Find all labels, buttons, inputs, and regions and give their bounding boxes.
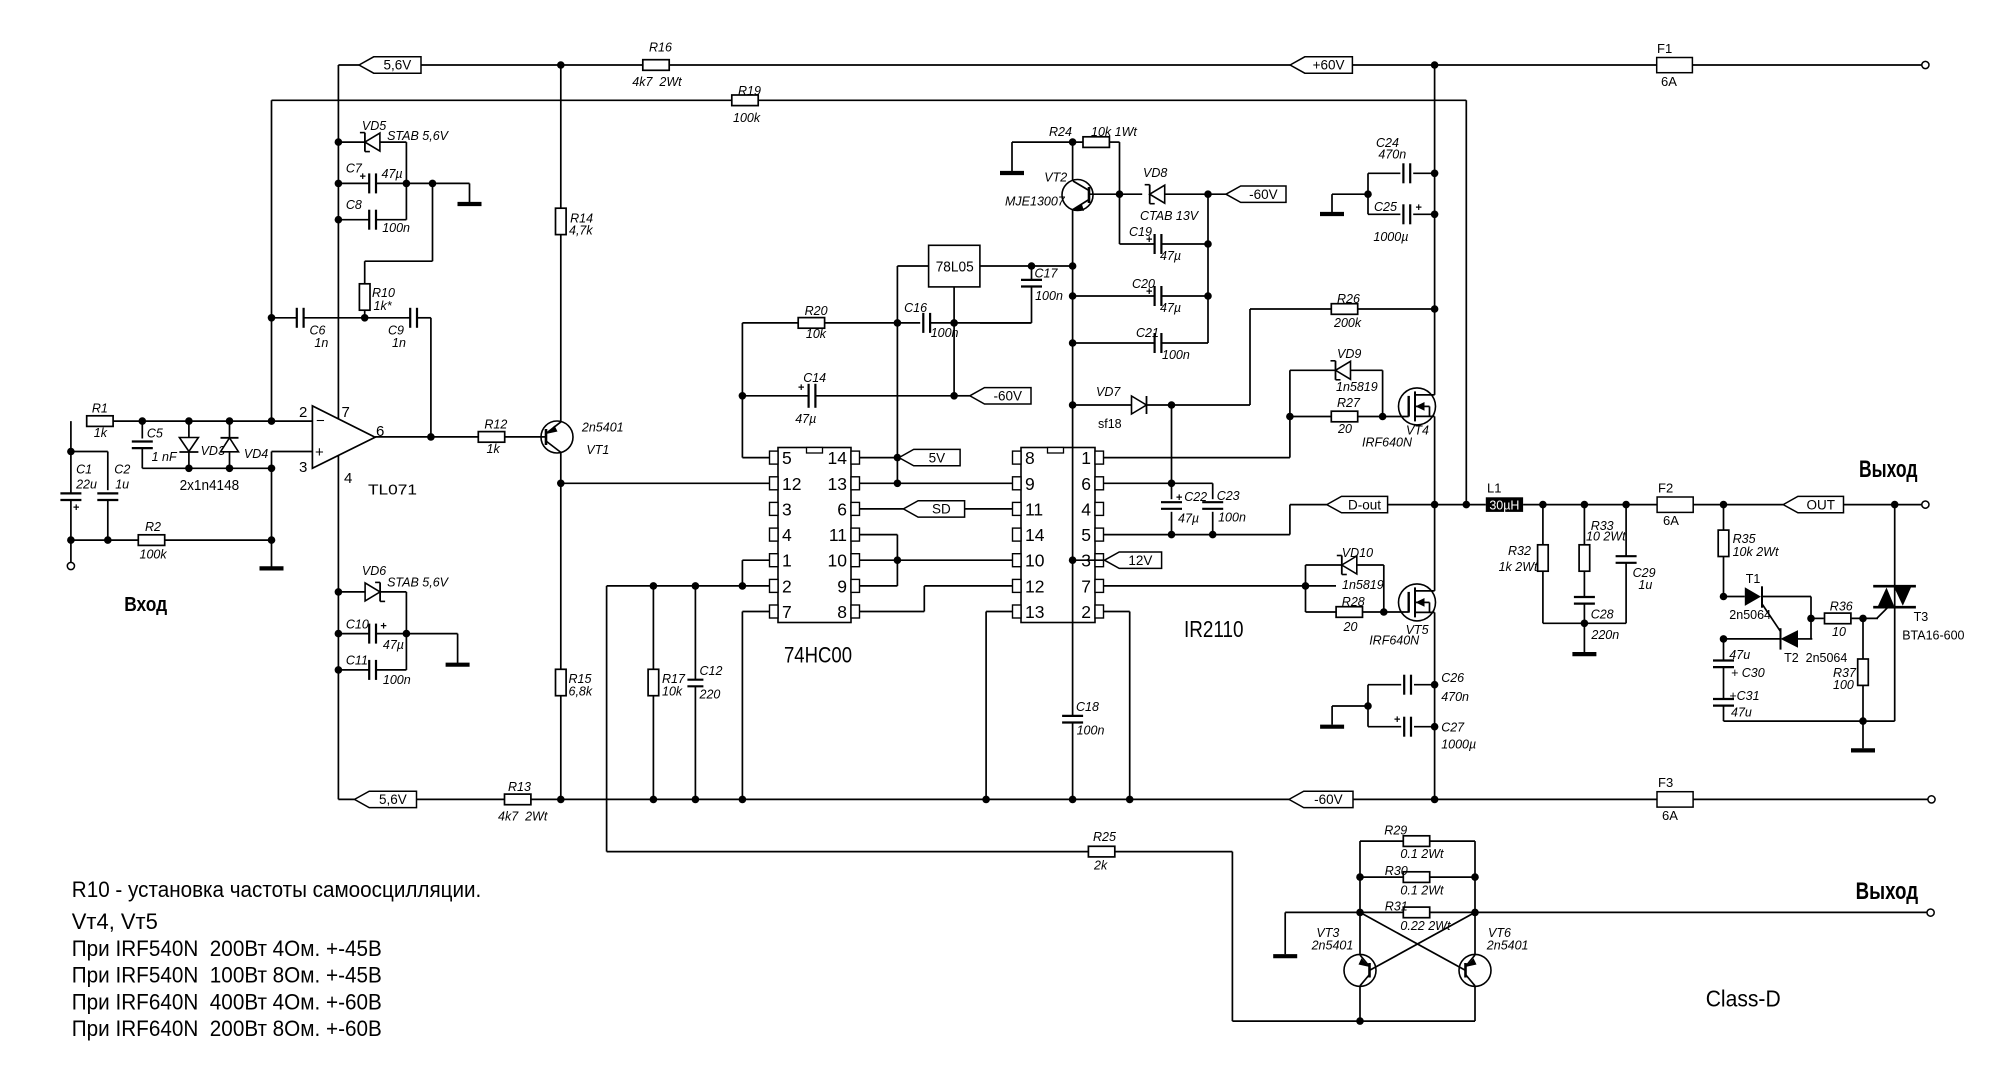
resistor R12 1k <box>478 432 504 443</box>
wire SD to IR2110 pin11 <box>965 508 1013 510</box>
svg-text:2k: 2k <box>1093 859 1108 873</box>
svg-text:VD5: VD5 <box>362 119 386 133</box>
wire plus input row <box>272 451 313 453</box>
node pin7 drop bottom <box>739 796 747 804</box>
wire VD7 to R26 riser <box>1249 309 1251 405</box>
svg-text:8: 8 <box>837 602 847 622</box>
flag -60V bottom <box>1289 791 1353 807</box>
resistor R37 100 <box>1862 618 1864 659</box>
node R17 bottom <box>650 796 658 804</box>
node VT4 source junction <box>1431 501 1439 509</box>
svg-text:Выход: Выход <box>1856 878 1919 905</box>
wire pin2 row <box>607 585 770 587</box>
wire R2 row <box>71 539 138 541</box>
thyristor T2 2n5064 <box>1724 638 1781 640</box>
wire IR2110 pin6 row <box>1104 482 1213 484</box>
wire bottom rail -60V to F3 <box>1353 798 1657 800</box>
wire IR2110 pin12 jog to 74HC00 pin8 <box>860 611 925 613</box>
svg-text:IR2110: IR2110 <box>1184 616 1244 642</box>
flag OUT <box>1783 496 1843 512</box>
wire C26 right <box>1414 684 1435 686</box>
node C17 top <box>1028 262 1036 270</box>
svg-text:VD9: VD9 <box>1337 347 1361 361</box>
wire C2 bottom <box>107 500 109 540</box>
wire C6 row vertical from R19 <box>271 100 273 421</box>
svg-text:5V: 5V <box>929 450 946 465</box>
flag -60V at VD8 <box>1226 186 1286 202</box>
wire R25 to right elbow <box>1115 851 1232 853</box>
resistor R26 200k <box>1250 308 1331 310</box>
resistor R27 20 <box>1290 416 1331 418</box>
svg-text:1 nF: 1 nF <box>152 450 178 464</box>
capacitor C10 47u polar <box>338 633 369 635</box>
wire bottom rail flag to R13 <box>417 798 505 800</box>
wire C26/C27 left vertical <box>1367 685 1369 727</box>
svg-text:5,6V: 5,6V <box>383 58 411 73</box>
wire R19 row right to x=1466 <box>759 99 1467 101</box>
wire ground branch <box>1332 193 1368 195</box>
svg-text:100n: 100n <box>1162 348 1190 362</box>
wire C20 row <box>1073 295 1155 297</box>
wire bottom rail left stub <box>338 798 354 800</box>
wire VT5 source down to rail <box>1434 612 1436 799</box>
node inverting input junction <box>268 417 276 425</box>
ground at C26/C27 <box>1320 725 1344 729</box>
wire VT1 collector down to bottom rail <box>560 453 562 670</box>
wire R24 right drop to base <box>1109 141 1119 143</box>
svg-text:4k7 2Wt: 4k7 2Wt <box>632 75 682 89</box>
svg-text:6A: 6A <box>1663 513 1679 528</box>
node C26 right <box>1431 681 1439 689</box>
svg-text:TL071: TL071 <box>368 482 417 499</box>
wire C1/C2 top row <box>71 451 108 453</box>
node VT3 emitter bottom <box>1356 1017 1364 1025</box>
node R35 top junction <box>1720 501 1728 509</box>
svg-text:10: 10 <box>1025 551 1045 571</box>
wire C27 right <box>1414 726 1435 728</box>
svg-text:6,8k: 6,8k <box>569 685 593 699</box>
wire +60V vertical to VT4 drain <box>1434 65 1436 395</box>
svg-text:11: 11 <box>829 525 847 545</box>
terminal output return <box>1927 909 1934 916</box>
resistor R2 100k <box>138 535 164 546</box>
node VD5 row left <box>335 138 343 146</box>
node ladder right R31 <box>1471 909 1479 917</box>
wire pin10 row shared <box>860 559 1013 561</box>
node T3 top junction <box>1891 501 1899 509</box>
svg-text:74HC00: 74HC00 <box>784 643 852 668</box>
svg-text:200k: 200k <box>1333 316 1362 330</box>
transistor VT1 2n5401 PNP <box>541 421 573 453</box>
flag 5V <box>899 449 960 465</box>
wire VD7 node down to C22 <box>1171 405 1173 499</box>
svg-text:47u: 47u <box>1731 706 1752 720</box>
svg-text:+C31: +C31 <box>1729 689 1759 703</box>
svg-text:R13: R13 <box>508 780 531 794</box>
IC U2 74HC00 body <box>778 448 851 623</box>
svg-text:1000µ: 1000µ <box>1441 738 1476 752</box>
capacitor C20 47u polar <box>1155 285 1161 307</box>
wire input vertical below R1 <box>70 421 72 562</box>
svg-text:47µ: 47µ <box>382 167 403 181</box>
svg-text:R10 - установка частоты самоос: R10 - установка частоты самоосцилляции. <box>72 877 482 902</box>
node C27 right <box>1431 723 1439 731</box>
svg-text:1: 1 <box>1081 448 1091 468</box>
node C1 C2 top junction <box>67 448 75 456</box>
wire C19 feed vertical <box>1119 194 1121 244</box>
node C14 left <box>739 392 747 400</box>
resistor R10 1k* <box>359 284 370 310</box>
svg-text:1n: 1n <box>314 336 328 350</box>
svg-text:0.1 2Wt: 0.1 2Wt <box>1400 847 1444 861</box>
svg-text:470n: 470n <box>1378 148 1406 162</box>
node C7 right VD5 return <box>403 180 411 188</box>
svg-text:C10: C10 <box>346 618 369 632</box>
MOSFET VT5 IRF640N <box>1399 584 1436 621</box>
wire C1 bottom <box>67 536 75 544</box>
wire C21 row <box>1073 342 1155 344</box>
resistor R15 6,8k <box>556 669 567 695</box>
node R32 top <box>1539 501 1547 509</box>
wire op-amp output row <box>375 436 478 438</box>
transistor VT6 2n5401 <box>1459 954 1491 986</box>
svg-text:12V: 12V <box>1128 553 1152 568</box>
zener VD9 1n5819 <box>1289 370 1291 416</box>
wire C16 right <box>930 322 1031 324</box>
wire C27 row <box>1368 726 1401 728</box>
node VT1 collector to 74HC00 pin12 branch <box>557 480 565 488</box>
wire 78L05 right output row <box>980 265 1073 267</box>
svg-text:+: + <box>360 171 366 183</box>
svg-text:3: 3 <box>782 499 792 519</box>
svg-text:При IRF640N 200Вт 8Ом. +-60В: При IRF640N 200Вт 8Ом. +-60В <box>72 1016 382 1041</box>
capacitor C2 1u <box>96 494 119 499</box>
node VD4 top <box>226 417 234 425</box>
node R17 top <box>650 582 658 590</box>
svg-text:1000µ: 1000µ <box>1373 230 1408 244</box>
svg-text:47u: 47u <box>1729 648 1750 662</box>
wire R25 route from pin2 vertical <box>607 851 1089 853</box>
wire IR2110 pin5 row <box>1104 534 1290 536</box>
node VD7 left <box>1069 401 1077 409</box>
capacitor C28 220n <box>1583 571 1585 597</box>
svg-text:4,7k: 4,7k <box>569 224 593 238</box>
svg-text:5,6V: 5,6V <box>379 792 407 807</box>
svg-text:10 2Wt: 10 2Wt <box>1586 530 1626 544</box>
wire F2 to OUT <box>1693 504 1783 506</box>
T3 gate diagonal <box>1877 607 1888 618</box>
svg-text:C5: C5 <box>147 427 163 441</box>
node C14 right junction <box>950 392 958 400</box>
wire R12 to VT1 base <box>505 436 546 438</box>
node pin13 row junction <box>894 480 902 488</box>
node IR2110 pin3 12V junction <box>1069 556 1077 564</box>
svg-text:D-out: D-out <box>1348 497 1381 512</box>
wire emitter bottom row <box>1232 1020 1475 1022</box>
wire output sense row to terminal <box>1475 911 1927 913</box>
node C8 row left <box>335 216 343 224</box>
wire feedback vertical x=1466 down to D-out <box>1465 100 1467 504</box>
node C26-C27 ground junction <box>1364 702 1372 710</box>
VT3 base cross wire <box>1370 912 1476 970</box>
node R14 top junction <box>557 61 565 69</box>
svg-text:R26: R26 <box>1337 292 1360 306</box>
ground filter RC <box>1583 623 1585 652</box>
wire VD8 return vertical <box>1207 194 1209 343</box>
capacitor C21 100n <box>1155 332 1161 354</box>
svg-text:C27: C27 <box>1441 721 1465 735</box>
node C16/78L05 output junction <box>950 319 958 327</box>
ground top-left block <box>469 183 471 202</box>
node C23 bottom junction <box>1209 531 1217 539</box>
wire VT2 collector top row to ground <box>1012 141 1083 143</box>
node VD3 top <box>185 417 193 425</box>
svg-text:+: + <box>380 621 386 633</box>
wire top 5.6V rail left vertical x=338.4 <box>337 65 339 799</box>
wire L1 to F2 <box>1523 504 1657 506</box>
zener VD5 STAB 5,6V <box>338 141 365 143</box>
svg-text:−: − <box>316 413 325 430</box>
svg-text:R19: R19 <box>738 84 761 98</box>
resistor R28 20 <box>1305 586 1307 612</box>
svg-text:R32: R32 <box>1508 544 1531 558</box>
svg-text:7: 7 <box>1081 576 1091 596</box>
svg-text:Vт4, Vт5: Vт4, Vт5 <box>72 909 158 934</box>
wire IR2110 pin13 drop to rail <box>986 611 1012 613</box>
svg-text:100k: 100k <box>733 111 761 125</box>
resistor R14 4,7k <box>556 208 567 234</box>
wire R20 to C16 <box>825 322 921 324</box>
svg-text:R20: R20 <box>805 304 828 318</box>
svg-text:-60V: -60V <box>1314 792 1343 807</box>
svg-text:+60V: +60V <box>1313 58 1345 73</box>
svg-text:13: 13 <box>828 474 847 494</box>
capacitor C12 220 <box>694 586 696 800</box>
svg-text:30µH: 30µH <box>1489 499 1519 513</box>
wire plus column vertical <box>271 452 273 567</box>
wire ground branch C26 <box>1332 705 1368 707</box>
svg-text:VT2: VT2 <box>1044 171 1067 185</box>
svg-text:C11: C11 <box>346 654 368 668</box>
wire R14 bottom to VT1 <box>560 235 562 422</box>
node R2 right junction <box>268 536 276 544</box>
wire VT1 emitter up / R14 <box>560 65 562 209</box>
svg-text:4: 4 <box>344 470 352 487</box>
svg-text:2n5401: 2n5401 <box>1311 939 1354 953</box>
wire VD9 right elbow <box>1351 369 1383 371</box>
terminal +60V input <box>1922 61 1929 68</box>
wire D-out row <box>1388 504 1486 506</box>
svg-text:R25: R25 <box>1093 830 1116 844</box>
svg-text:STAB 5,6V: STAB 5,6V <box>387 129 450 143</box>
resistor R13 4k7 2Wt <box>505 794 531 805</box>
svg-text:VD4: VD4 <box>244 447 268 461</box>
wire VD5 right elbow <box>380 141 407 143</box>
node C6 left <box>268 314 276 322</box>
ground sense network <box>1284 912 1286 954</box>
wire 5V vertical from C16 row <box>896 323 898 483</box>
wire OUT to terminal <box>1844 504 1922 506</box>
wire VT2 collector vertical <box>1072 142 1074 181</box>
svg-text:100n: 100n <box>383 673 411 687</box>
svg-text:C21: C21 <box>1136 326 1159 340</box>
svg-text:+: + <box>1146 286 1152 298</box>
svg-text:R30: R30 <box>1385 864 1408 878</box>
node C20 right <box>1204 292 1212 300</box>
wire top rail R16 -> +60V flag <box>669 64 1290 66</box>
IC 78L05 regulator box <box>929 245 980 287</box>
zener VD6 STAB 5,6V <box>338 591 365 593</box>
resistor R35 10k 2Wt <box>1723 505 1725 530</box>
svg-text:T3: T3 <box>1914 610 1929 624</box>
svg-text:+: + <box>1394 714 1400 726</box>
capacitor C27 1000u polar <box>1404 716 1410 738</box>
capacitor C9 1n <box>407 317 410 319</box>
transistor VT3 2n5401 <box>1344 954 1376 986</box>
svg-text:2: 2 <box>782 576 792 596</box>
svg-text:10: 10 <box>1832 625 1846 639</box>
wire pin5 riser to D-out <box>1289 505 1291 535</box>
node C20 left <box>1069 292 1077 300</box>
svg-text:6A: 6A <box>1661 74 1677 89</box>
wire branch to 74HC00 pin 12 <box>561 482 772 484</box>
zener VD8 CTAB 13V <box>1150 185 1165 203</box>
svg-text:+: + <box>73 502 79 514</box>
MOSFET VT4 IRF640N <box>1399 388 1436 425</box>
node C12 bottom <box>692 796 700 804</box>
node VD6 row left <box>335 588 343 596</box>
capacitor C24 470n <box>1404 162 1410 184</box>
wire VT5 drain from D-out <box>1434 505 1436 591</box>
wire VT2 base row to VD8 <box>1089 193 1142 195</box>
node C24 right <box>1431 170 1439 178</box>
svg-text:100k: 100k <box>140 548 168 562</box>
wire C14 row to -60V flag <box>954 395 970 397</box>
svg-text:220n: 220n <box>1590 628 1619 642</box>
flag +60V <box>1290 57 1352 73</box>
svg-text:+ C30: + C30 <box>1731 666 1765 680</box>
svg-text:При IRF540N 200Вт 4Ом. +-45В: При IRF540N 200Вт 4Ом. +-45В <box>72 936 382 961</box>
flag D-out <box>1327 496 1388 512</box>
wire 12V line through IR2110 <box>1072 448 1074 623</box>
resistor R30 0.1 2Wt <box>1360 876 1403 878</box>
flag 5,6V bottom <box>355 791 417 807</box>
flag 5,6V top <box>359 57 421 73</box>
wire 78L05 input elbow <box>896 266 898 323</box>
svg-text:+: + <box>1416 202 1422 214</box>
svg-text:T2 2n5064: T2 2n5064 <box>1784 651 1847 665</box>
terminal output hot <box>1922 501 1929 508</box>
resistor R36 10 <box>1811 617 1824 619</box>
svg-text:11: 11 <box>1025 499 1043 519</box>
svg-text:T1: T1 <box>1746 572 1761 586</box>
svg-text:R10: R10 <box>372 286 395 300</box>
node pin2 drop bottom <box>1126 796 1134 804</box>
svg-text:R24: R24 <box>1049 125 1072 139</box>
node ladder left R31 <box>1356 909 1364 917</box>
wire C26 row <box>1368 684 1401 686</box>
svg-text:220: 220 <box>699 688 721 702</box>
svg-text:C8: C8 <box>346 198 362 212</box>
svg-text:CTAB 13V: CTAB 13V <box>1140 209 1200 223</box>
thyristor T1 2n5064 <box>1724 596 1745 598</box>
node ladder right R30 <box>1471 873 1479 881</box>
wire ladder right rail <box>1474 841 1476 954</box>
node R36 right junction <box>1859 615 1867 623</box>
svg-text:C1: C1 <box>76 463 92 477</box>
svg-text:R2: R2 <box>145 520 161 534</box>
svg-text:C18: C18 <box>1076 700 1099 714</box>
node C19 right <box>1204 240 1212 248</box>
svg-text:L1: L1 <box>1487 481 1501 496</box>
node C24-C25 ground junction <box>1364 190 1372 198</box>
node T1 row left <box>1720 593 1728 601</box>
resistor R19 <box>732 95 758 106</box>
wire C21 right <box>1161 342 1208 344</box>
wire 78L05 output down <box>953 287 955 396</box>
node pin7/VD10 junction <box>1302 582 1310 590</box>
flag 12V <box>1105 552 1162 568</box>
svg-text:VD6: VD6 <box>362 564 386 578</box>
node output/C9 junction <box>427 433 435 441</box>
svg-text:9: 9 <box>837 576 847 596</box>
T1 gate diagonal <box>1762 604 1781 632</box>
wire pin 7 drop to bottom rail <box>742 611 769 613</box>
svg-text:Выход: Выход <box>1859 456 1918 483</box>
svg-text:47µ: 47µ <box>1160 301 1181 315</box>
wire R15 bottom <box>560 696 562 800</box>
svg-text:7: 7 <box>342 404 350 421</box>
svg-text:При IRF540N 100Вт 8Ом. +-45В: При IRF540N 100Вт 8Ом. +-45В <box>72 963 382 988</box>
svg-text:C28: C28 <box>1591 608 1614 622</box>
node 78L05 input junction <box>894 319 902 327</box>
inductor L1 30uH <box>1486 497 1523 512</box>
wire pin5 lead <box>742 457 769 459</box>
wire C7 row to ground branch <box>406 182 469 184</box>
capacitor C23 100n <box>1212 483 1214 499</box>
capacitor C8 100n <box>338 219 369 221</box>
capacitor C7 47u polar <box>338 182 369 184</box>
svg-text:2n5401: 2n5401 <box>581 421 624 435</box>
svg-text:F3: F3 <box>1658 775 1673 790</box>
svg-text:1n5819: 1n5819 <box>1342 578 1384 592</box>
node R24 left junction <box>1069 138 1077 146</box>
terminal input <box>67 562 74 569</box>
svg-text:47µ: 47µ <box>1160 249 1181 263</box>
svg-text:1u: 1u <box>115 478 129 492</box>
capacitor C1 22u <box>107 452 109 491</box>
wire VD8 right <box>1165 193 1226 195</box>
capacitor C31 47u polar <box>1723 667 1725 700</box>
wire R28 to VT5 gate <box>1363 611 1409 613</box>
svg-text:1k: 1k <box>487 442 501 456</box>
svg-text:0.1 2Wt: 0.1 2Wt <box>1400 884 1444 898</box>
wire C8 right vertical <box>405 183 407 219</box>
svg-text:VT1: VT1 <box>586 443 609 457</box>
node pin1 drop junction <box>739 582 747 590</box>
wire VT2 emitter vertical down to IR2110 and C18 <box>1072 210 1074 800</box>
triac T3 BTA16-600 <box>1894 505 1896 587</box>
wire R19 row left <box>272 99 732 101</box>
wire pin6 to SD flag <box>860 508 904 510</box>
svg-text:100n: 100n <box>1218 511 1246 525</box>
node C22 bottom junction <box>1168 531 1176 539</box>
capacitor C26 470n <box>1404 674 1410 696</box>
wire R10 bottom <box>364 310 366 318</box>
capacitor C17 100n <box>1031 266 1033 280</box>
ground at C24/C25 <box>1320 212 1344 216</box>
capacitor C30 47u polar <box>1723 639 1725 660</box>
